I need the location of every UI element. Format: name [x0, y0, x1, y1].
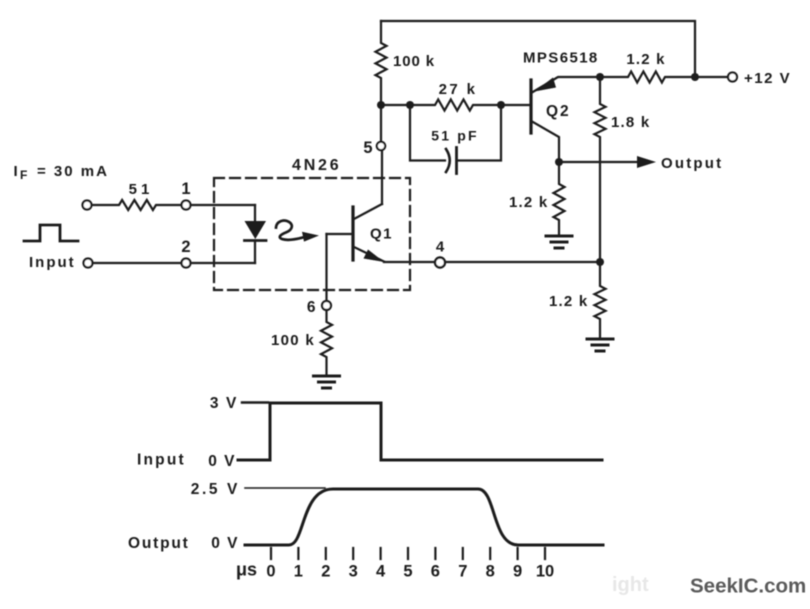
label 51: [129, 181, 154, 198]
wire output line: [559, 161, 640, 163]
junction dot cap-right: [497, 101, 505, 109]
svg-text:4N26: 4N26: [292, 157, 341, 174]
label 1.2 k (bottom): [549, 293, 588, 310]
svg-text:ight: ight: [612, 574, 649, 596]
svg-text:1: 1: [181, 180, 190, 198]
resistor 51: [92, 200, 181, 210]
transistor Q1 collector: [354, 204, 382, 219]
watermark SeekIC.com: [690, 575, 806, 598]
svg-text:1.2 k: 1.2 k: [626, 51, 665, 68]
resistor 1.8k: [595, 77, 606, 262]
svg-text:Q2: Q2: [546, 103, 571, 120]
resistor 1.2k (bottom): [595, 262, 606, 337]
label Output (waveform): [128, 535, 190, 552]
LED triangle: [245, 221, 267, 239]
label Q1: [370, 226, 393, 243]
svg-text:27 k: 27 k: [439, 81, 478, 98]
resistor 27k: [381, 100, 530, 111]
svg-text:+12 V: +12 V: [744, 70, 791, 87]
svg-text:7: 7: [458, 563, 467, 581]
junction dot cap-left: [406, 101, 414, 109]
label pin 2: [181, 238, 190, 256]
wire node5 to Q1 collector: [381, 151, 383, 205]
svg-text:10: 10: [536, 563, 554, 581]
svg-text:4: 4: [436, 239, 445, 256]
LED cathode wire: [254, 241, 256, 263]
wire Q1 base to node 6: [325, 234, 327, 301]
transistor Q1 base bar: [351, 207, 354, 260]
transistor Q2 collector: [532, 122, 559, 163]
svg-text:2: 2: [181, 238, 190, 256]
label Q2: [546, 103, 571, 120]
node 4 terminal: [435, 258, 445, 268]
time axis ticks: [271, 548, 545, 559]
terminal pin 2: [182, 259, 191, 268]
wire cap branch right: [457, 105, 501, 161]
svg-text:2.5 V: 2.5 V: [191, 481, 240, 498]
svg-text:5: 5: [363, 139, 372, 157]
node 5 terminal: [377, 142, 385, 150]
2.5V reference line: [245, 487, 325, 489]
ground (100k): [314, 376, 340, 388]
label Input (terminal): [29, 254, 76, 271]
time axis labels: [266, 563, 554, 581]
junction dot +12V rail: [691, 73, 699, 81]
resistor 1.2k (emitter to +12V): [600, 72, 695, 83]
label Output (arrow): [661, 155, 723, 172]
svg-text:100 k: 100 k: [271, 332, 315, 349]
svg-text:8: 8: [486, 563, 495, 581]
svg-text:9: 9: [513, 563, 522, 581]
transistor Q2 emitter arrow: [535, 78, 557, 92]
svg-text:1.2 k: 1.2 k: [549, 293, 588, 310]
svg-text:2: 2: [321, 563, 330, 581]
wire input bottom: [93, 262, 182, 264]
label 3 V: [210, 395, 238, 412]
wire to +12V terminal: [695, 76, 727, 78]
svg-text:0: 0: [266, 563, 275, 581]
transistor Q1 emitter: [354, 247, 384, 262]
label 0 V (input): [208, 453, 236, 470]
label 100 k (R1): [393, 53, 435, 70]
svg-text:3: 3: [349, 563, 358, 581]
svg-text:SeekIC.com: SeekIC.com: [690, 575, 806, 598]
svg-text:100 k: 100 k: [393, 53, 435, 70]
label +12 V: [744, 70, 791, 87]
wire Q1 emitter to node 4: [384, 261, 435, 263]
svg-text:I: I: [14, 163, 18, 180]
junction dot Q2 collector node: [555, 158, 563, 166]
svg-text:5: 5: [403, 563, 412, 581]
output waveform: [245, 489, 603, 545]
resistor R1 100k: [376, 21, 387, 105]
svg-text:MPS6518: MPS6518: [523, 50, 599, 67]
capacitor C1 curved plate: [446, 149, 450, 172]
transistor Q1 base wire: [327, 233, 352, 235]
junction dot Q2 emitter node: [596, 73, 604, 81]
svg-text:Input: Input: [29, 254, 76, 271]
wire pin2 to LED: [191, 262, 256, 264]
label 2.5 V: [191, 481, 240, 498]
wire to node 5: [380, 105, 382, 142]
label pin 1: [181, 180, 190, 198]
terminal input top: [83, 201, 92, 210]
svg-text:4: 4: [376, 563, 386, 581]
ground (bottom 1.2k): [587, 339, 613, 351]
wire node 4 to 1.8k node: [445, 261, 600, 263]
svg-text:6: 6: [307, 299, 316, 316]
light coupling arrow: [276, 221, 319, 242]
capacitor C1 flat plate: [455, 148, 458, 174]
input pulse icon: [24, 225, 78, 241]
svg-text:51 pF: 51 pF: [431, 128, 479, 144]
svg-text:6: 6: [431, 563, 440, 581]
wire top rail: [381, 21, 695, 77]
svg-text:3 V: 3 V: [210, 395, 238, 412]
label pin 5: [363, 139, 372, 157]
svg-text:Input: Input: [137, 452, 186, 469]
label pin 4: [436, 239, 445, 256]
label 1.2 k (top): [626, 51, 665, 68]
watermark ghost: [612, 574, 649, 596]
transistor Q2 emitter: [532, 77, 600, 93]
transistor Q1 emitter arrow: [364, 250, 385, 263]
svg-text:F: F: [20, 168, 27, 182]
label 1.8 k: [611, 114, 650, 131]
terminal pin 1: [182, 201, 191, 210]
svg-text:1.2 k: 1.2 k: [509, 194, 548, 211]
label 100 k (bottom): [271, 332, 315, 349]
junction node 100k/27k/node5: [377, 101, 385, 109]
svg-text:Q1: Q1: [370, 226, 393, 243]
label us: [236, 560, 257, 580]
ground (Q2 collector load): [546, 236, 572, 248]
svg-text:μs: μs: [236, 560, 257, 580]
junction dot node4/1.8k: [596, 258, 604, 266]
svg-text:Output: Output: [661, 155, 723, 172]
svg-text:0 V: 0 V: [208, 453, 236, 470]
label 4N26: [292, 157, 341, 174]
wire cap branch left: [410, 105, 445, 161]
label pin 6: [307, 299, 316, 316]
label 27 k: [439, 81, 478, 98]
label 51 pF: [431, 128, 479, 144]
terminal input bottom: [84, 259, 93, 268]
3V reference dash: [242, 401, 268, 403]
label 0 V (output): [211, 535, 239, 552]
svg-text:1.8 k: 1.8 k: [611, 114, 650, 131]
wire pin1 to LED: [191, 204, 256, 206]
label MPS6518: [523, 50, 599, 67]
svg-text:Output: Output: [128, 535, 190, 552]
terminal +12V: [728, 73, 737, 82]
node 6 terminal: [322, 301, 331, 310]
svg-text:1: 1: [294, 563, 303, 581]
output arrowhead: [637, 156, 656, 168]
transistor Q2 base bar: [529, 80, 532, 133]
svg-text:0 V: 0 V: [211, 535, 239, 552]
label 1.2 k (mid): [509, 194, 548, 211]
optocoupler 4N26 dashed box: [214, 178, 410, 290]
svg-text:= 30 mA: = 30 mA: [37, 163, 109, 180]
LED cathode bar: [245, 239, 267, 242]
input waveform: [238, 403, 602, 460]
resistor 100k (base bleed): [321, 310, 332, 374]
svg-text:51: 51: [129, 181, 154, 198]
resistor 1.2k (Q2 collector load): [554, 162, 565, 235]
label Input (waveform): [137, 452, 186, 469]
LED anode wire: [254, 205, 256, 221]
label IF = 30 mA: [14, 163, 109, 182]
